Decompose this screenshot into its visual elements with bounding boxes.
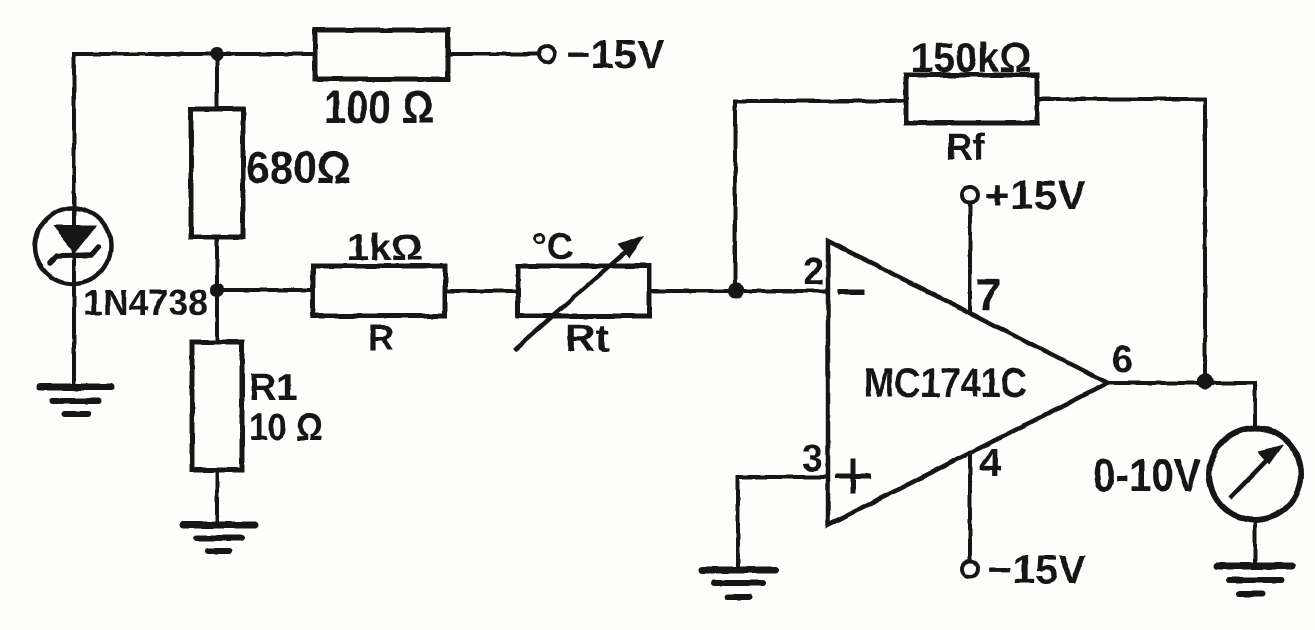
svg-text:−15V: −15V: [566, 33, 665, 77]
svg-text:1kΩ: 1kΩ: [347, 227, 423, 268]
svg-text:0-10V: 0-10V: [1093, 449, 1201, 501]
svg-text:R: R: [368, 317, 394, 358]
svg-text:°C: °C: [532, 226, 574, 267]
svg-text:2: 2: [803, 251, 824, 293]
svg-text:6: 6: [1112, 339, 1133, 381]
svg-text:−15V: −15V: [988, 548, 1086, 592]
svg-text:+15V: +15V: [985, 172, 1087, 218]
svg-text:10 Ω: 10 Ω: [249, 407, 323, 449]
svg-text:Rf: Rf: [946, 127, 985, 169]
svg-text:3: 3: [802, 438, 823, 480]
svg-text:4: 4: [979, 441, 1002, 485]
svg-text:100 Ω: 100 Ω: [324, 81, 434, 133]
svg-text:1N4738: 1N4738: [83, 282, 208, 323]
svg-text:150kΩ: 150kΩ: [911, 34, 1031, 81]
svg-text:680Ω: 680Ω: [246, 142, 351, 193]
svg-text:MC1741C: MC1741C: [864, 359, 1027, 406]
svg-text:Rt: Rt: [565, 318, 609, 360]
svg-text:R1: R1: [249, 367, 298, 409]
svg-text:7: 7: [976, 269, 1001, 320]
